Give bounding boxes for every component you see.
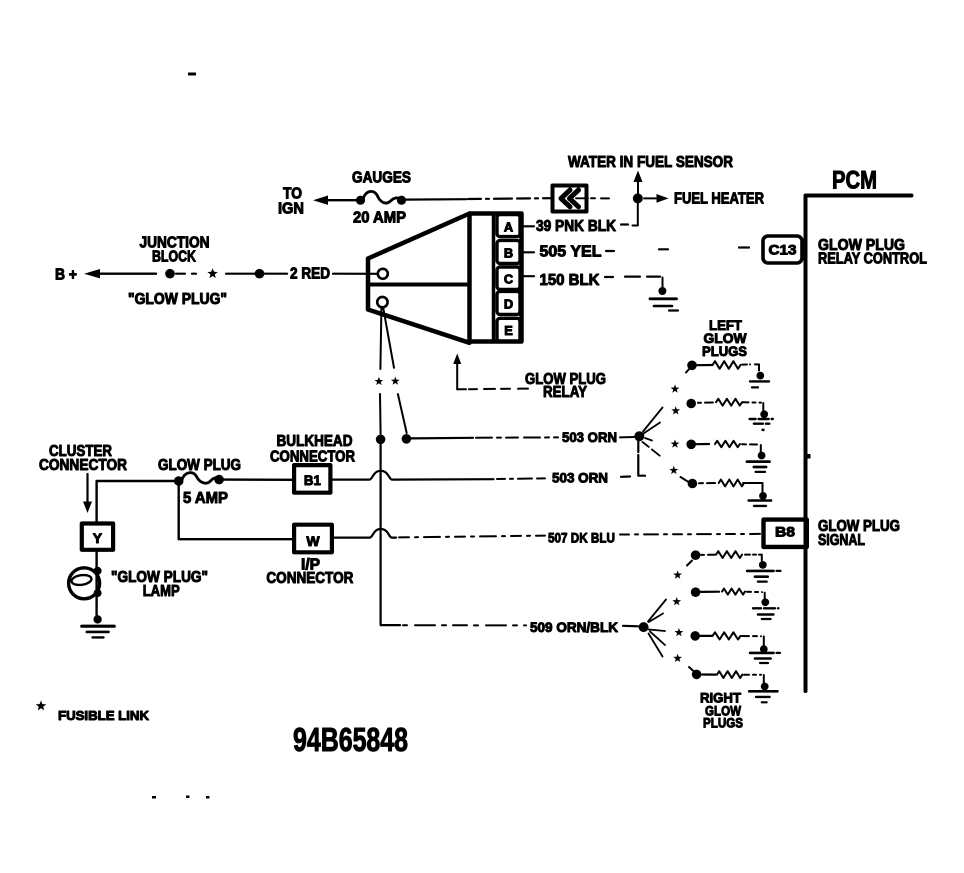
- ground left plug 2: [750, 410, 773, 431]
- svg-text:39 PNK BLK: 39 PNK BLK: [536, 218, 617, 235]
- glow plug resistor left 2: [686, 399, 763, 411]
- fusible link star right plug 3: [675, 628, 684, 636]
- svg-text:94B65848: 94B65848: [293, 721, 408, 758]
- wire pin B lead: [522, 251, 535, 253]
- svg-text:"GLOW PLUG": "GLOW PLUG": [128, 291, 227, 308]
- wire 507 DK BLU to B8: [620, 533, 760, 536]
- fusible link star right plug 4: [673, 654, 682, 662]
- svg-text:5 AMP: 5 AMP: [183, 490, 228, 507]
- fusible link star left: [375, 377, 384, 385]
- ground left plug 3: [747, 452, 770, 472]
- svg-text:B1: B1: [304, 472, 321, 488]
- arrow up to water-in-fuel sensor: [634, 171, 643, 195]
- svg-text:A: A: [504, 220, 513, 235]
- label 5 AMP: [183, 490, 228, 507]
- label I/P CONNECTOR: [266, 557, 353, 587]
- svg-text:503 ORN: 503 ORN: [552, 470, 608, 486]
- wire cluster to fuse: [97, 481, 176, 524]
- ground right plug 2: [753, 598, 778, 619]
- svg-text:505 YEL: 505 YEL: [540, 244, 602, 261]
- arrow pointer to relay: [453, 354, 528, 390]
- relay terminal circle 2: [377, 297, 387, 307]
- wire fuse to connector symbol: [404, 198, 551, 199]
- svg-text:BLOCK: BLOCK: [152, 248, 197, 265]
- svg-text:GLOW PLUG: GLOW PLUG: [158, 457, 241, 474]
- label 94B65848: [293, 721, 408, 758]
- label WATER IN FUEL SENSOR: [568, 154, 733, 171]
- ground for 150 BLK: [650, 287, 678, 311]
- svg-text:150 BLK: 150 BLK: [540, 272, 601, 289]
- fuse F2 5 AMP: [174, 473, 224, 486]
- wire fuse to B1: [223, 478, 294, 481]
- fuse F1 20 AMP: [356, 191, 406, 204]
- wire W east with hop: [332, 529, 545, 538]
- label 507 DK BLU: [548, 530, 615, 546]
- glow plug resistor left 3: [686, 440, 760, 453]
- stray mark: [188, 73, 196, 76]
- fusible link star left plug 3: [671, 439, 680, 447]
- svg-text:RELAY: RELAY: [543, 384, 588, 401]
- node fan-out left glow plugs: [634, 408, 662, 458]
- label GLOW PLUG fuse: [158, 457, 241, 474]
- svg-text:B: B: [504, 246, 513, 261]
- label 20 AMP: [353, 210, 406, 227]
- arrow to fuel heater: [644, 194, 669, 203]
- svg-text:503 ORN: 503 ORN: [562, 429, 617, 445]
- wire 503 ORN lower riser to fan node: [638, 441, 645, 476]
- arrow cluster connector pointer: [83, 474, 92, 513]
- svg-text:PCM: PCM: [832, 167, 877, 195]
- glow plug resistor right 2: [691, 587, 765, 598]
- wire connector to fuel-heater junction: [591, 197, 633, 199]
- relay pin A: [497, 215, 520, 237]
- label GLOW PLUG RELAY CONTROL: [818, 237, 927, 267]
- connector C13: [763, 236, 802, 263]
- glow plug resistor left 1: [686, 361, 759, 373]
- svg-text:WATER IN FUEL SENSOR: WATER IN FUEL SENSOR: [568, 154, 733, 171]
- svg-text:B8: B8: [775, 524, 795, 540]
- svg-text:507 DK BLU: 507 DK BLU: [548, 530, 615, 546]
- wire 509 ORN/BLK to fan node: [623, 625, 638, 628]
- label CLUSTER CONNECTOR: [39, 443, 127, 474]
- label 509 ORN/BLK: [530, 619, 618, 635]
- svg-text:W: W: [306, 533, 320, 549]
- relay pin E: [497, 318, 520, 341]
- wires fusible links to nodes: [380, 394, 407, 434]
- glow plug resistor right 1: [687, 550, 762, 565]
- svg-text:B +: B +: [55, 267, 77, 284]
- svg-text:509 ORN/BLK: 509 ORN/BLK: [530, 619, 618, 635]
- svg-text:CONNECTOR: CONNECTOR: [266, 570, 353, 587]
- svg-text:SIGNAL: SIGNAL: [818, 532, 865, 549]
- fusible link star on B+ line: [207, 268, 217, 278]
- ground right plug 3: [750, 645, 780, 663]
- node fan-out right glow plugs: [639, 600, 666, 657]
- fusible link star right plug 1: [673, 570, 682, 578]
- fusible link star right plug 2: [672, 597, 681, 605]
- svg-text:Y: Y: [93, 530, 103, 546]
- wire junction down to 39 PNK BLK: [633, 204, 638, 226]
- wire fuse branch to W: [179, 484, 294, 539]
- svg-text:IGN: IGN: [278, 201, 304, 218]
- fusible link star left plug 4: [669, 466, 678, 474]
- label LEFT GLOW PLUGS: [702, 317, 747, 359]
- glow plug resistor right 4: [689, 667, 764, 684]
- label BULKHEAD CONNECTOR: [270, 433, 355, 465]
- glow plug relay body: [470, 214, 522, 342]
- stray specks: [152, 796, 210, 799]
- ground for lamp: [82, 615, 114, 637]
- node junction block: [165, 269, 175, 279]
- label 503 ORN lower: [552, 470, 608, 486]
- label RIGHT GLOW PLUGS: [700, 690, 743, 731]
- wire 2 RED to relay pin: [333, 273, 377, 275]
- ground right plug 4: [749, 683, 777, 703]
- glow plug resistor left 4: [681, 477, 763, 492]
- PCM box edge: [806, 196, 912, 692]
- wire B1 east with hop: [330, 471, 548, 480]
- fusible link star left plug 1: [671, 384, 680, 392]
- relay pin C: [497, 267, 520, 289]
- svg-text:FUEL HEATER: FUEL HEATER: [674, 191, 764, 208]
- svg-text:C13: C13: [769, 242, 797, 258]
- inline connector symbol (double chevron): [553, 186, 589, 212]
- relay terminal circle 1: [378, 269, 388, 279]
- arrow at B+: [84, 269, 156, 278]
- label B+: [55, 267, 77, 284]
- label 150 BLK: [540, 272, 601, 289]
- wires relay terminal 2 to fusible links: [380, 308, 394, 369]
- node on B+ line: [255, 269, 265, 279]
- label 505 YEL: [540, 244, 602, 261]
- fusible link legend star: [36, 701, 46, 711]
- glow plug resistor right 3: [690, 631, 763, 645]
- label JUNCTION BLOCK: [140, 235, 210, 266]
- label "GLOW PLUG" LAMP: [111, 569, 208, 600]
- svg-text:CONNECTOR: CONNECTOR: [270, 448, 355, 465]
- ground left plug 4: [749, 492, 771, 506]
- connector W box: [294, 525, 332, 553]
- wire 503 ORN upper to fan node: [620, 436, 634, 438]
- label TO IGN: [278, 186, 304, 218]
- node left branch: [376, 435, 386, 445]
- svg-text:RELAY CONTROL: RELAY CONTROL: [818, 250, 927, 267]
- fusible link star left plug 2: [671, 406, 680, 414]
- wire pin A lead: [522, 225, 535, 227]
- svg-text:LAMP: LAMP: [143, 583, 180, 600]
- wire junction block dash: [176, 273, 196, 275]
- wire pin C lead: [522, 275, 535, 277]
- fusible link star right: [391, 377, 400, 385]
- label PCM: [832, 167, 877, 195]
- lamp "GLOW PLUG": [69, 567, 102, 599]
- svg-text:C: C: [504, 272, 513, 287]
- relay pin D: [497, 291, 520, 314]
- wire 509 ORN/BLK riser: [381, 444, 526, 625]
- svg-text:2 RED: 2 RED: [290, 265, 330, 282]
- label GLOW PLUG RELAY: [525, 371, 606, 401]
- label "GLOW PLUG": [128, 291, 227, 308]
- connector B8: [764, 520, 807, 547]
- label 2 RED: [290, 265, 330, 282]
- label FUSIBLE LINK: [58, 708, 150, 723]
- svg-text:PLUGS: PLUGS: [702, 343, 747, 359]
- wire Y to lamp and ground: [95, 550, 97, 617]
- wire 505 YEL to C13: [606, 248, 749, 252]
- ground right plug 1: [747, 561, 780, 582]
- label GAUGES: [352, 170, 411, 187]
- svg-text:E: E: [504, 323, 513, 338]
- wire star to node: [226, 273, 255, 275]
- label 503 ORN upper: [562, 429, 617, 445]
- label FUEL HEATER: [674, 191, 764, 208]
- wire 150 BLK to ground: [605, 277, 663, 288]
- label GLOW PLUG SIGNAL: [818, 518, 900, 549]
- svg-text:PLUGS: PLUGS: [703, 714, 743, 730]
- connector Y box: [82, 524, 113, 550]
- svg-text:CONNECTOR: CONNECTOR: [39, 457, 127, 474]
- label 39 PNK BLK: [536, 218, 628, 235]
- svg-text:20 AMP: 20 AMP: [353, 210, 406, 227]
- wire 503 ORN lower dash: [621, 475, 630, 477]
- wire 503 ORN upper run: [411, 437, 558, 438]
- node fuel heater junction: [633, 193, 643, 203]
- relay pin B: [497, 240, 520, 263]
- svg-text:GAUGES: GAUGES: [352, 170, 411, 187]
- svg-text:D: D: [504, 297, 513, 312]
- glow plug relay trapezoid housing: [368, 214, 470, 343]
- ground left plug 1: [750, 372, 769, 388]
- wire node to 2 RED: [264, 273, 287, 275]
- node right branch: [402, 434, 412, 444]
- svg-text:FUSIBLE LINK: FUSIBLE LINK: [58, 708, 150, 723]
- connector B1: [294, 465, 330, 493]
- arrow to IGN: [313, 196, 361, 205]
